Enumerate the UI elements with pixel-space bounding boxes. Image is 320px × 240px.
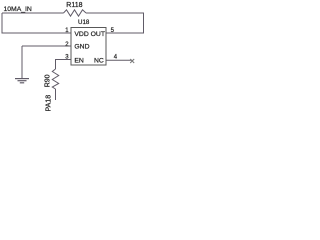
wire bbox=[2, 12, 64, 14]
resistor R90 bbox=[44, 69, 58, 89]
op-amp U18 bbox=[71, 19, 106, 65]
resistor R118 bbox=[64, 2, 87, 16]
svg-text:NC: NC bbox=[94, 58, 104, 65]
wire bbox=[21, 46, 23, 78]
svg-text:VDD OUT: VDD OUT bbox=[74, 31, 105, 38]
svg-text:EN: EN bbox=[74, 58, 84, 65]
svg-text:PA18: PA18 bbox=[46, 95, 53, 112]
ground bbox=[15, 79, 29, 83]
no-connect pin 4 bbox=[130, 59, 134, 63]
wire bbox=[56, 60, 72, 70]
svg-text:10MA_IN: 10MA_IN bbox=[4, 6, 32, 13]
wire bbox=[22, 45, 71, 47]
wire bbox=[55, 89, 57, 100]
svg-text:GND: GND bbox=[74, 44, 89, 51]
svg-text:R118: R118 bbox=[66, 2, 82, 9]
wire bbox=[2, 13, 71, 33]
svg-text:R90: R90 bbox=[44, 74, 51, 87]
svg-text:U18: U18 bbox=[78, 19, 90, 26]
wire bbox=[86, 13, 144, 33]
wire bbox=[106, 59, 132, 61]
